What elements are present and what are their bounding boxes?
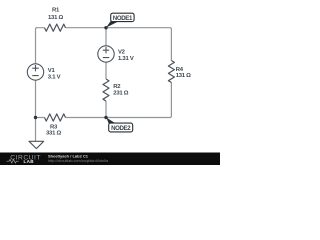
- svg-text:131 Ω: 131 Ω: [48, 15, 63, 21]
- wire top net from V1 to NODE1 to R4: [36, 28, 45, 64]
- svg-text:R2: R2: [113, 84, 121, 90]
- node NODE1 label box: [111, 13, 134, 21]
- svg-text:1.31 V: 1.31 V: [118, 56, 134, 62]
- svg-text:3.1 V: 3.1 V: [48, 74, 61, 80]
- voltage source V2: [98, 46, 114, 62]
- wire R2 bottom to bottom net: [105, 101, 107, 118]
- node NODE2 label box: [109, 123, 133, 132]
- wire R1 right to top-right corner down to R4 top: [66, 28, 172, 61]
- svg-text:NODE1: NODE1: [113, 15, 133, 22]
- node C junction dot left bottom: [34, 116, 37, 119]
- ground: [29, 141, 44, 148]
- footer bar: [0, 153, 220, 166]
- svg-text:LAB: LAB: [24, 159, 35, 164]
- node NODE1 flag tail: [106, 20, 118, 28]
- wire R3 left to left vertical: [36, 117, 45, 119]
- svg-text:V1: V1: [48, 68, 56, 74]
- svg-text:Sheetlyach / Lab2 C1: Sheetlyach / Lab2 C1: [48, 153, 89, 158]
- svg-text:NODE2: NODE2: [111, 125, 131, 132]
- wire V2 bottom to R2 top: [105, 62, 107, 79]
- svg-text:R4: R4: [176, 67, 184, 73]
- node A junction dot at NODE1: [104, 26, 107, 29]
- svg-text:http://circuitlab.com/ccqkkkn4: http://circuitlab.com/ccqkkkn46dn9a: [48, 159, 109, 163]
- logo resistor glyph: [7, 159, 19, 163]
- svg-text:R1: R1: [52, 8, 60, 14]
- wire R4 bottom down to bottom-right corner to R3 right: [66, 83, 172, 118]
- resistor R1: [45, 24, 66, 31]
- node B junction dot at NODE2: [104, 116, 107, 119]
- wire V1 bottom down to ground: [35, 80, 37, 141]
- wire NODE1 branch down to V2 top: [105, 28, 107, 46]
- svg-text:V2: V2: [118, 50, 126, 56]
- voltage source V1: [27, 64, 43, 80]
- resistor R4: [168, 61, 174, 83]
- resistor R2: [103, 79, 109, 101]
- resistor R3: [45, 114, 66, 121]
- node NODE2 flag tail: [106, 118, 115, 126]
- svg-text:131 Ω: 131 Ω: [176, 73, 191, 79]
- svg-text:231 Ω: 231 Ω: [113, 91, 128, 97]
- svg-text:331 Ω: 331 Ω: [46, 131, 61, 137]
